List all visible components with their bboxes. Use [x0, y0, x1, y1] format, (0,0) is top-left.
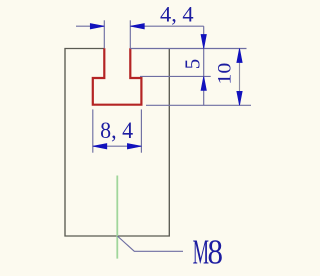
arrow 10 bottom (points down): [237, 91, 242, 105]
part outline (T-slot block body): [65, 49, 169, 237]
centerline (green): [116, 176, 118, 259]
extension line left of 4,4 dimension: [103, 20, 105, 48]
dimension line 8,4: [93, 145, 142, 147]
arrow 8,4 left (points left): [93, 144, 107, 149]
top surface extension line (blue, over part top right): [130, 48, 246, 50]
slot bottom extension line: [146, 104, 251, 106]
arrow 4,4 left (points right): [90, 24, 104, 29]
dimension line 5 (vertical): [203, 26, 205, 105]
extension line left of 8,4 dimension: [92, 109, 94, 152]
step extension line (bottom of 5 dim): [140, 75, 211, 77]
dimension line 10 (vertical): [239, 49, 241, 106]
svg-text:8, 4: 8, 4: [100, 117, 133, 143]
svg-text:10: 10: [215, 63, 235, 85]
dimension line 4,4 right segment: [130, 25, 203, 27]
svg-text:5: 5: [181, 59, 205, 70]
arrow 4,4 right (points left): [130, 24, 144, 29]
svg-text:8: 8: [208, 233, 223, 272]
arrow 5 top (points down at surface): [201, 35, 206, 49]
extension line right of 4,4 dimension: [129, 20, 131, 48]
extension line right of 8,4 dimension: [140, 109, 142, 152]
slot profile (red T-slot cut): [93, 48, 142, 104]
svg-text:4, 4: 4, 4: [160, 1, 194, 26]
arrow 8,4 right (points right): [127, 144, 141, 149]
arrow 5 bottom (points up at step): [201, 76, 206, 90]
leader line to M8 thread: [117, 236, 183, 251]
arrow 10 top (points up): [237, 49, 242, 63]
dimension line 4,4 left tail: [76, 25, 104, 27]
